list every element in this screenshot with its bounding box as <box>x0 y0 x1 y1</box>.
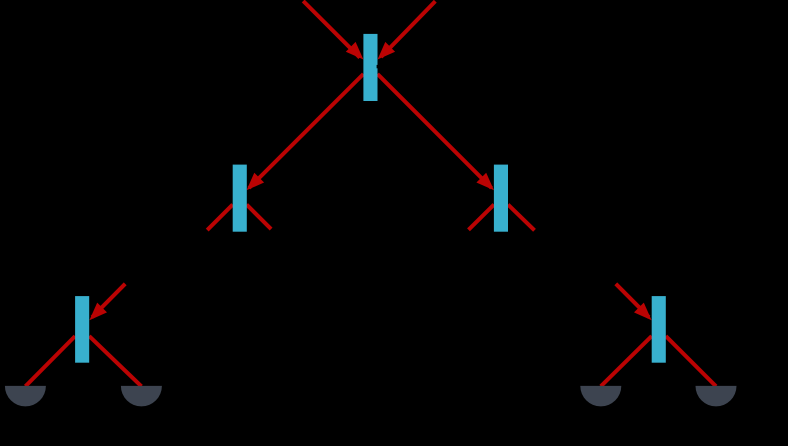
beam splitter BS1 (top) <box>363 34 377 101</box>
arrowhead of top-right input beam at BS1 right face <box>378 42 396 60</box>
wire: beam BS1 to BS3 (down-right) <box>378 74 492 188</box>
wire: beam BS1 to BS2 (down-left) <box>249 74 363 188</box>
detector D2 (half-disc) <box>121 386 162 406</box>
wire: beam approaching BS5 from upper left <box>616 284 649 317</box>
arrowhead of top-left input beam at BS1 left face <box>346 42 364 60</box>
beam splitter BS5 (bottom right) <box>652 296 666 363</box>
wire: input beam from top-right into BS1 <box>381 1 435 57</box>
wire: beam approaching BS4 from upper right <box>92 284 125 317</box>
wire: short output stub down-left of BS3 <box>469 205 495 230</box>
beam splitter BS3 (middle right) <box>494 165 508 232</box>
wire: beam BS4 to detector D1 <box>25 336 75 386</box>
arrowhead of BS1-to-BS3 beam at BS3 left face <box>476 173 494 191</box>
beam splitter BS2 (middle left) <box>233 165 247 232</box>
detector D4 (half-disc) <box>696 386 737 406</box>
beam splitter BS4 (bottom left) <box>75 296 89 363</box>
wire: beam BS5 to detector D3 <box>601 336 652 386</box>
wire: beam BS5 to detector D4 <box>666 336 716 386</box>
arrowhead of BS1-to-BS2 beam at BS2 right face <box>247 173 265 191</box>
wire: short output stub down-right of BS3 <box>508 205 535 231</box>
arrowhead of beam at BS4 right face <box>89 303 107 321</box>
wire: beam BS4 to detector D2 <box>89 336 141 386</box>
wire: input beam from top-left into BS1 <box>303 1 360 58</box>
arrowhead of beam at BS5 left face <box>634 303 652 321</box>
wire: short output stub down-right of BS2 <box>247 205 272 230</box>
small dark notch on BS1 right edge <box>377 65 379 68</box>
detector D1 (half-disc) <box>5 386 46 406</box>
detector D3 (half-disc) <box>580 386 621 406</box>
wire: short output stub down-left of BS2 <box>207 205 233 231</box>
